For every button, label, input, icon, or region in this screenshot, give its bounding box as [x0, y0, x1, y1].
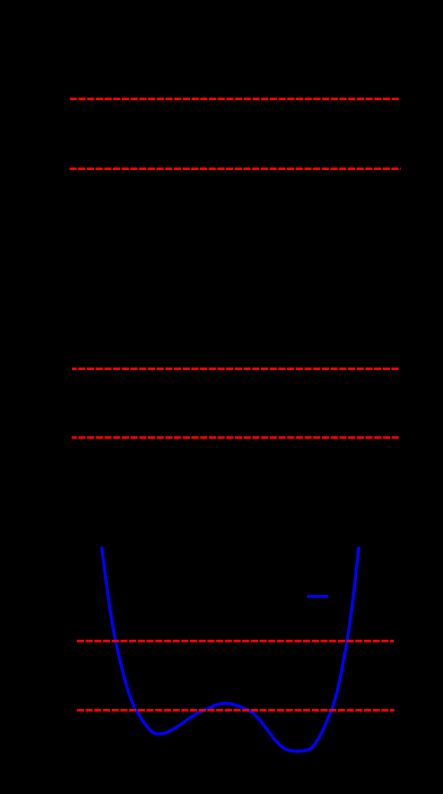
energy level line E2 (middle axes) — [72, 368, 400, 371]
energy level line E4 (top axes) — [70, 98, 401, 101]
energy level line E1 (bottom axes) — [77, 640, 394, 643]
energy level line E3 (top axes) — [70, 168, 401, 171]
energy level line E0 (bottom axes) — [77, 709, 395, 712]
energy level line E1 (middle axes) — [72, 436, 400, 439]
legend sample line — [307, 595, 328, 598]
potential curve V(x) double well — [102, 547, 359, 752]
